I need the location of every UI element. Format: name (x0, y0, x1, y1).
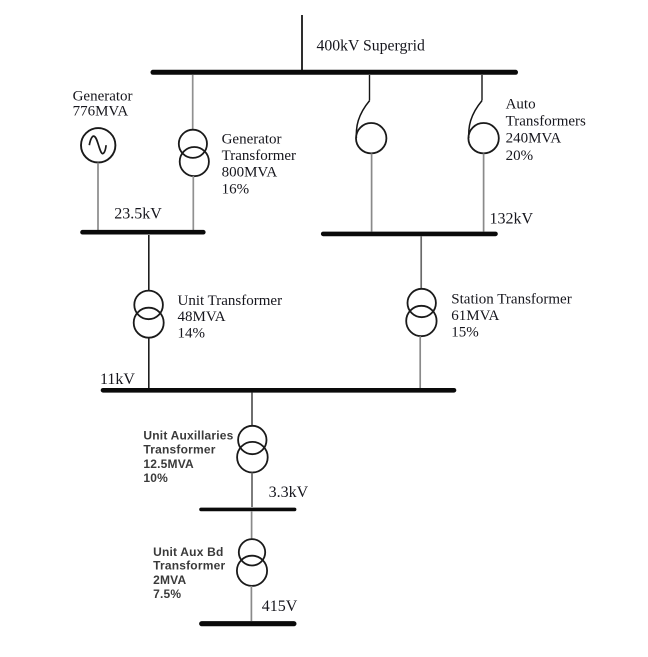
svg-text:3.3kV: 3.3kV (269, 484, 309, 501)
busbar: 23.5kV (83, 230, 204, 235)
wire: incoming feeder above 400kV bus (301, 15, 303, 72)
svg-text:Transformer: Transformer (153, 559, 225, 573)
svg-text:12.5MVA: 12.5MVA (143, 457, 194, 471)
svg-text:Unit Aux Bd: Unit Aux Bd (153, 545, 223, 559)
svg-text:400kV Supergrid: 400kV Supergrid (317, 38, 425, 55)
transformer T4 Unit Auxiliaries Transformer: two circles (238, 426, 266, 454)
svg-text:Generator: Generator (73, 88, 133, 104)
busbar: 415V (202, 621, 294, 626)
svg-text:Transformers: Transformers (506, 113, 586, 129)
transformer T2 Unit Transformer: two circles (134, 291, 163, 320)
wire: 3.3kV bus to unit aux bd transformer (251, 511, 253, 540)
wire: 23.5kV bus to unit transformer (148, 235, 150, 291)
svg-text:15%: 15% (451, 324, 479, 340)
wire: unit transformer to 11kV bus (148, 338, 150, 389)
transformer T3 Station Transformer: two circles (408, 289, 436, 317)
wire: 400kV bus to auto transformer 2 (feed stub) (481, 75, 483, 101)
wire: 400kV bus to generator transformer (192, 75, 194, 130)
svg-text:11kV: 11kV (100, 371, 135, 388)
busbar: 3.3kV (201, 508, 295, 512)
busbar: 400kV Supergrid (153, 70, 516, 75)
svg-text:Auto: Auto (506, 97, 536, 113)
svg-text:Unit Auxillaries: Unit Auxillaries (143, 428, 233, 442)
svg-text:Generator: Generator (222, 131, 282, 147)
generator G1: circle with sine (81, 128, 115, 162)
auto transformer 2: circle (468, 123, 498, 153)
svg-text:Unit Transformer: Unit Transformer (178, 293, 283, 309)
svg-text:Transformer: Transformer (143, 443, 215, 457)
label: Unit Aux Bd Transformer 2MVA 7.5% (153, 545, 225, 601)
wire: unit auxiliaries transformer to 3.3kV bus (251, 473, 253, 508)
svg-text:23.5kV: 23.5kV (114, 205, 162, 222)
wire: 132kV bus to station transformer (420, 236, 422, 289)
svg-text:7.5%: 7.5% (153, 587, 181, 601)
svg-text:61MVA: 61MVA (451, 308, 499, 324)
svg-text:240MVA: 240MVA (506, 130, 562, 146)
svg-text:48MVA: 48MVA (178, 309, 226, 325)
svg-text:776MVA: 776MVA (73, 104, 129, 120)
wire: generator to 23.5kV bus (97, 163, 99, 231)
busbar: 132kV (323, 232, 495, 237)
svg-text:20%: 20% (506, 148, 533, 164)
auto transformer 1: circle (356, 123, 386, 153)
svg-text:2MVA: 2MVA (153, 573, 186, 587)
auto transformer 1: winding curve (356, 101, 369, 138)
busbar: 11kV (103, 388, 454, 393)
svg-text:Transformer: Transformer (222, 148, 296, 164)
wire: auto transformer 1 to 132kV bus (371, 153, 373, 231)
transformer T5 Unit Aux Bd Transformer: two circles (239, 539, 265, 565)
svg-text:132kV: 132kV (490, 211, 534, 228)
svg-text:10%: 10% (143, 471, 168, 485)
svg-text:14%: 14% (178, 326, 206, 342)
transformer T1 Generator Transformer: two circles (179, 130, 207, 158)
svg-text:415V: 415V (262, 598, 298, 615)
svg-text:16%: 16% (222, 181, 250, 197)
svg-text:Station Transformer: Station Transformer (451, 291, 571, 307)
wire: auto transformer 2 to 132kV bus (483, 153, 485, 231)
wire: generator transformer to 23.5kV bus (192, 176, 194, 231)
label: Unit Auxillaries Transformer 12.5MVA 10% (143, 428, 233, 485)
wire: unit aux bd transformer to 415V bus (250, 586, 252, 621)
auto transformer 2: winding curve (469, 101, 482, 138)
wire: 400kV bus to auto transformer 1 (feed stub) (369, 75, 371, 101)
wire: station transformer to 11kV bus (419, 336, 421, 388)
wire: 11kV bus to unit auxiliaries transformer (251, 393, 253, 427)
svg-text:800MVA: 800MVA (222, 164, 278, 180)
